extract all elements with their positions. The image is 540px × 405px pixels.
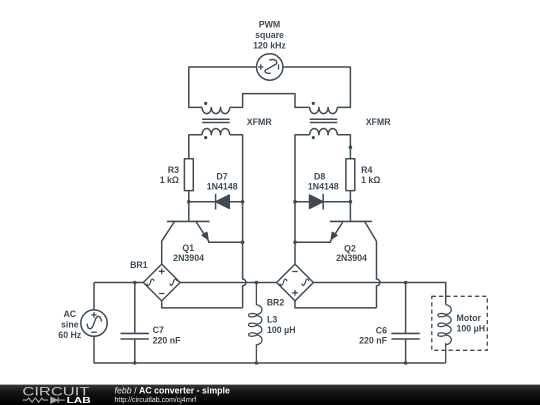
wire XFMR1 primary right to XFMR2 primary left xyxy=(230,94,310,108)
label D7 xyxy=(207,171,238,191)
junction Q1 emitter rail xyxy=(241,240,245,244)
junction C6 top xyxy=(404,281,408,285)
wire BR1 bottom detour to left rail xyxy=(162,301,243,308)
wire AC top xyxy=(93,283,95,310)
inductor Motor xyxy=(438,305,451,363)
label R3 xyxy=(160,165,179,185)
svg-text:C6: C6 xyxy=(376,325,387,335)
label Q1 xyxy=(173,243,204,263)
svg-text:L3: L3 xyxy=(267,314,277,324)
wire R3 bottom to node xyxy=(188,191,190,202)
inductor L3 xyxy=(249,283,262,364)
footer bar xyxy=(0,385,540,405)
svg-text:LAB: LAB xyxy=(67,395,91,405)
svg-text:100 µH: 100 µH xyxy=(457,324,486,334)
capacitor C7 xyxy=(121,283,149,364)
label V-PWM value xyxy=(253,19,286,50)
junction Q2 emitter rail xyxy=(293,241,297,245)
diode D7 xyxy=(189,194,243,210)
svg-text:R4: R4 xyxy=(361,165,372,175)
junction D8 anode rail xyxy=(293,200,297,204)
wire BR1 right to BR2 left xyxy=(180,282,277,284)
label C7 xyxy=(153,325,181,345)
wire Q2 collector hop over bus (right) xyxy=(377,241,380,308)
junction C7 bottom xyxy=(133,361,137,365)
junction R3/D7 node xyxy=(187,200,191,204)
wire BR2 bottom detour to Q2 collector rail xyxy=(295,301,377,308)
svg-text:220 nF: 220 nF xyxy=(153,335,181,345)
voltage source V-PWM xyxy=(257,54,283,80)
capacitor C6 xyxy=(391,283,419,364)
bridge rectifier BR2 xyxy=(277,264,314,301)
footer text xyxy=(115,385,231,404)
wire XFMR1 secondary left to R3 xyxy=(189,135,202,159)
svg-text:R3: R3 xyxy=(168,165,179,175)
svg-text:Q1: Q1 xyxy=(182,243,194,253)
svg-text:100 µH: 100 µH xyxy=(267,325,296,335)
svg-text:Q2: Q2 xyxy=(344,243,356,253)
wire AC bottom xyxy=(94,336,446,363)
junction R4/D8 node xyxy=(349,200,353,204)
wire XFMR1 secondary right down rail xyxy=(230,135,243,243)
svg-text:120 kHz: 120 kHz xyxy=(253,40,286,50)
svg-text:220 nF: 220 nF xyxy=(359,336,387,346)
svg-text:BR2: BR2 xyxy=(267,298,285,308)
transistor Q1 xyxy=(162,202,243,264)
transistor Q2 xyxy=(295,202,377,243)
label L3 xyxy=(267,314,296,335)
wire XFMR2 secondary right to R4 xyxy=(337,135,350,159)
junction D7 anode rail xyxy=(241,200,245,204)
svg-text:sine: sine xyxy=(61,320,79,330)
svg-text:http://circuitlab.com/cj4rnrf: http://circuitlab.com/cj4rnrf xyxy=(115,397,197,404)
svg-text:square: square xyxy=(255,30,284,40)
label D8 xyxy=(308,171,339,191)
wire XFMR2 secondary left down rail xyxy=(295,135,310,264)
motor dashed enclosure xyxy=(432,296,488,350)
resistor R4 xyxy=(346,159,355,191)
transformer XFMR2 xyxy=(310,102,338,139)
svg-text:60 Hz: 60 Hz xyxy=(58,330,82,340)
label C6 xyxy=(359,325,387,345)
wire R4 bottom to node xyxy=(349,191,351,202)
bridge rectifier BR1 xyxy=(143,264,180,301)
svg-text:2N3904: 2N3904 xyxy=(336,253,367,263)
diode D8 xyxy=(295,194,350,210)
wire PWM left to XFMR1 primary xyxy=(189,67,257,107)
svg-text:XFMR: XFMR xyxy=(247,117,273,127)
svg-text:PWM: PWM xyxy=(259,19,281,29)
svg-text:1N4148: 1N4148 xyxy=(207,181,238,191)
svg-text:2N3904: 2N3904 xyxy=(173,253,204,263)
svg-text:D8: D8 xyxy=(314,171,325,181)
svg-text:febb / AC converter - simple: febb / AC converter - simple xyxy=(115,385,231,395)
svg-text:C7: C7 xyxy=(153,325,164,335)
label Q2 xyxy=(336,243,367,263)
wire BR2 right to motor xyxy=(313,283,445,305)
wire PWM right to XFMR2 primary xyxy=(283,67,351,107)
junction above R4 xyxy=(349,145,353,149)
svg-text:D7: D7 xyxy=(216,171,227,181)
junction AC/C7 node xyxy=(133,281,137,285)
wire bus AC to BR1 left xyxy=(94,282,143,284)
label Motor xyxy=(457,313,486,334)
junction C6 bottom xyxy=(404,361,408,365)
junction L3 top node xyxy=(255,281,259,285)
transformer XFMR1 xyxy=(202,102,230,139)
junction L3 bottom xyxy=(255,361,259,365)
label V-AC xyxy=(58,309,82,340)
wire rail hop over bus (left) xyxy=(243,242,246,308)
svg-text:AC: AC xyxy=(63,309,76,319)
label R4 xyxy=(361,165,380,185)
svg-text:Motor: Motor xyxy=(457,313,482,323)
svg-text:1 kΩ: 1 kΩ xyxy=(160,175,179,185)
svg-text:XFMR: XFMR xyxy=(366,117,392,127)
resistor R3 xyxy=(184,159,193,191)
svg-text:1N4148: 1N4148 xyxy=(308,181,339,191)
CircuitLab logo xyxy=(22,384,90,405)
svg-text:1 kΩ: 1 kΩ xyxy=(361,175,380,185)
voltage source V-AC xyxy=(81,310,107,336)
svg-text:BR1: BR1 xyxy=(130,260,148,270)
